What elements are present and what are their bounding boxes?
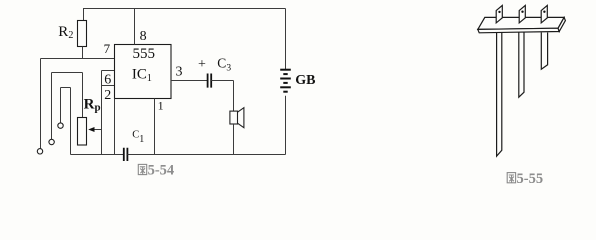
capacitor C3 [208, 74, 212, 88]
wire R2 top stub [83, 8, 85, 21]
tab hole 1 [498, 11, 500, 13]
svg-text:5-54: 5-54 [148, 163, 175, 179]
svg-text:555: 555 [133, 46, 156, 62]
svg-text:1: 1 [158, 99, 164, 113]
wire IC lower-left corner to ground rail [114, 99, 116, 155]
wire terminal T1 drop [40, 59, 42, 149]
svg-text:8: 8 [140, 29, 147, 44]
node terminal T3 [58, 123, 63, 128]
wire ground rail left segment [71, 154, 124, 156]
svg-text:IC1: IC1 [132, 66, 152, 84]
wire ground rail right segment [127, 154, 285, 156]
node terminal T2 [49, 139, 54, 144]
wire terminal T2 drop [51, 73, 53, 140]
wire terminal T3 drop [60, 88, 62, 123]
RP wiper arrow [94, 129, 102, 131]
speaker BL [230, 111, 238, 124]
node terminal T1 [37, 149, 42, 154]
wire pin3 horizontal [171, 80, 208, 82]
wire pin1 vertical [154, 99, 156, 155]
electrode tab 2 [519, 5, 525, 23]
tab hole 2 [521, 11, 523, 13]
svg-text:3: 3 [176, 64, 183, 79]
wire battery top [285, 9, 287, 70]
svg-text:GB: GB [295, 73, 315, 88]
wire pin7 horizontal [41, 58, 115, 60]
svg-text:2: 2 [104, 88, 111, 103]
wire top rail Vcc [83, 8, 286, 10]
wire pin6 horizontal [102, 70, 115, 72]
wire pin8 vertical [134, 8, 136, 45]
wire C3 to speaker [211, 80, 233, 82]
wire R2 bottom stub [82, 47, 84, 59]
wire terminal T3 horizontal [61, 87, 71, 89]
electrode rod 2 (middle) [519, 33, 524, 98]
support plank top face [478, 17, 564, 29]
svg-text:5-55: 5-55 [517, 171, 544, 187]
electrode tab 3 [541, 5, 547, 23]
wire pins 2-6 bus vertical [101, 71, 103, 155]
svg-text:R2: R2 [58, 24, 73, 41]
wire T3 right leg to ground rail [70, 88, 72, 155]
wire speaker bottom [233, 124, 235, 155]
svg-text:C3: C3 [217, 56, 231, 74]
wire RP top stub [82, 73, 84, 118]
svg-text:+: + [198, 57, 206, 72]
caption fig 5-55 [507, 173, 515, 183]
op-amp U1 555 timer IC box [115, 45, 172, 99]
tab hole 3 [543, 11, 545, 13]
electrode tab 1 [496, 5, 502, 23]
caption fig 5-54 [138, 164, 146, 174]
wire speaker top [233, 81, 235, 112]
wire battery bottom [285, 96, 287, 155]
resistor R2 [78, 21, 87, 47]
potentiometer RP [78, 118, 87, 146]
svg-text:C1: C1 [132, 130, 144, 145]
battery GB [280, 70, 291, 92]
support plank front face [478, 28, 559, 33]
wire terminal T2 horizontal [52, 72, 83, 74]
electrode rod 3 (short) [541, 33, 547, 70]
wire pin2 horizontal [102, 85, 115, 87]
electrode rod 1 (long) [478, 5, 566, 156]
support plank end face [558, 17, 565, 31]
capacitor C1 [124, 148, 128, 161]
svg-text:Rp: Rp [84, 97, 101, 114]
svg-text:7: 7 [104, 41, 111, 56]
